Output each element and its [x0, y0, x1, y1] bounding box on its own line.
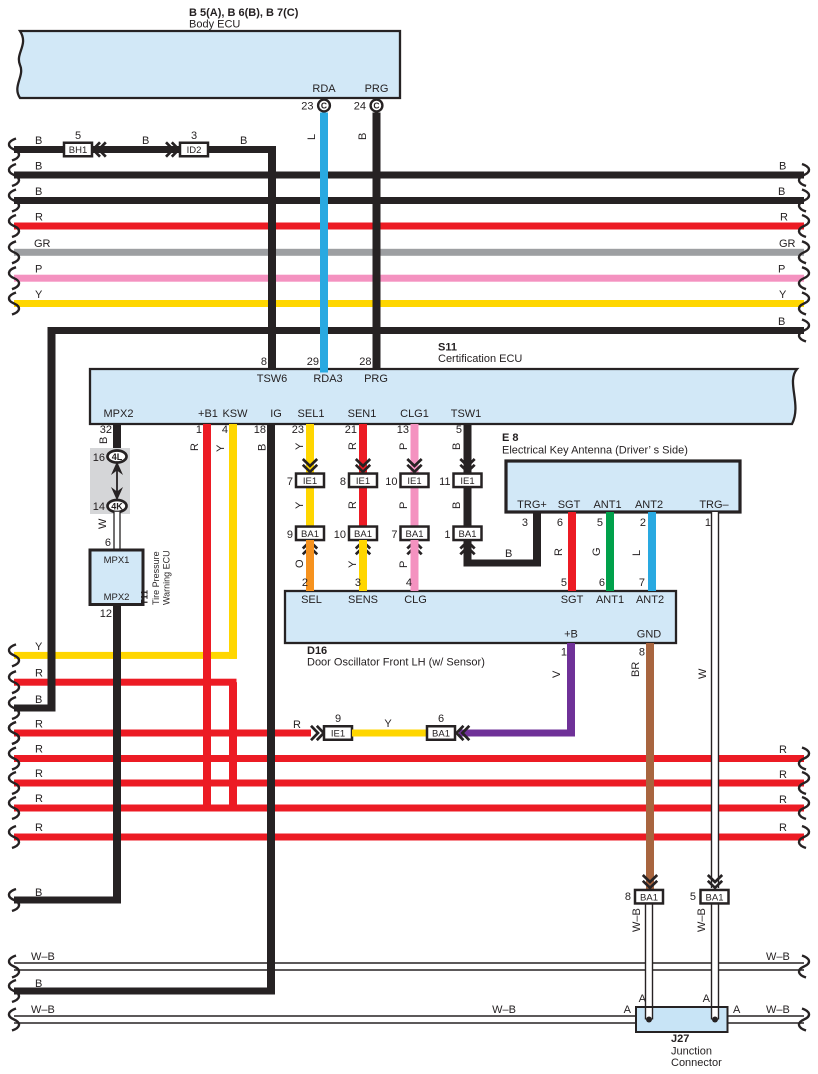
chevron after BA1-6 — [457, 726, 464, 740]
svg-text:ID2: ID2 — [187, 145, 202, 156]
svg-text:W–B: W–B — [31, 1004, 55, 1016]
wire R branch down — [229, 682, 237, 811]
wire B row1 down to TSW6 — [268, 146, 276, 369]
svg-text:Y: Y — [779, 289, 787, 301]
torn edge B 900 — [9, 889, 19, 911]
svg-text:18: 18 — [254, 424, 266, 436]
wire Y SEL1 upper — [306, 424, 314, 473]
svg-text:Tire Pressure: Tire Pressure — [151, 551, 161, 605]
svg-text:MPX2: MPX2 — [104, 592, 130, 603]
wire B row8 vertical — [48, 327, 56, 712]
svg-text:W–B: W–B — [766, 1004, 790, 1016]
svg-text:16: 16 — [93, 452, 105, 464]
torn edges R rows right — [799, 748, 809, 770]
svg-text:Body ECU: Body ECU — [189, 19, 240, 31]
svg-text:B: B — [240, 135, 247, 147]
svg-text:1: 1 — [561, 647, 567, 659]
wire B MPX2-12 left arm — [14, 897, 121, 904]
torn edges W-B bottom — [9, 1009, 19, 1031]
svg-text:L: L — [631, 550, 643, 556]
svg-text:Y: Y — [215, 444, 227, 452]
svg-text:29: 29 — [307, 356, 319, 368]
svg-text:P: P — [398, 502, 410, 509]
svg-text:B: B — [35, 161, 42, 173]
svg-text:ANT2: ANT2 — [636, 594, 664, 606]
wire P CLG1 mid seg — [411, 487, 419, 527]
svg-text:IE1: IE1 — [303, 476, 317, 487]
svg-text:8: 8 — [340, 476, 346, 488]
svg-text:E 8: E 8 — [502, 432, 519, 444]
svg-text:+B: +B — [564, 629, 578, 641]
svg-text:GR: GR — [779, 238, 796, 250]
chevron BA1 col1 — [303, 542, 317, 549]
svg-text:24: 24 — [354, 101, 366, 113]
wire BR GND down — [646, 643, 654, 889]
wire Y KSW down — [229, 424, 237, 659]
connector shade 4L-4K — [90, 448, 130, 514]
svg-text:CLG: CLG — [404, 594, 427, 606]
svg-text:A: A — [703, 993, 711, 1005]
wire W-B BA1-8 down — [646, 904, 653, 1020]
svg-text:SEL: SEL — [301, 594, 322, 606]
svg-text:R: R — [553, 548, 565, 556]
chevron IE1 col1 — [303, 459, 317, 466]
svg-text:3: 3 — [355, 577, 361, 589]
svg-text:MPX1: MPX1 — [104, 555, 130, 566]
svg-text:B: B — [142, 135, 149, 147]
svg-text:4L: 4L — [112, 452, 123, 462]
chevron IE1 col2 — [356, 459, 370, 466]
svg-text:PRG: PRG — [364, 373, 388, 385]
svg-text:Junction: Junction — [671, 1046, 712, 1058]
bus wire B row2 — [14, 172, 804, 179]
svg-text:21: 21 — [345, 424, 357, 436]
svg-text:IE1: IE1 — [460, 476, 474, 487]
svg-text:Y: Y — [347, 560, 359, 568]
wire R SGT — [568, 512, 576, 591]
torn edges right top — [799, 164, 809, 186]
svg-text:TRG+: TRG+ — [517, 499, 547, 511]
svg-text:23: 23 — [292, 424, 304, 436]
chevron into BA1-8 — [643, 875, 657, 882]
E8 block — [506, 461, 740, 512]
svg-text:B: B — [779, 161, 786, 173]
svg-text:TSW6: TSW6 — [257, 373, 288, 385]
svg-text:SEN1: SEN1 — [348, 408, 377, 420]
svg-text:+B1: +B1 — [198, 408, 218, 420]
svg-text:A: A — [639, 993, 647, 1005]
svg-text:R: R — [779, 822, 787, 834]
wire R +B1 down — [203, 424, 211, 812]
bus wire GR row5 — [14, 249, 804, 256]
wire G ANT1 — [606, 512, 614, 591]
wire Y between — [352, 730, 427, 737]
svg-text:Y: Y — [384, 718, 392, 730]
svg-text:5: 5 — [597, 517, 603, 529]
junction dot 1 — [646, 1017, 652, 1023]
torn edge R 733 — [9, 722, 19, 744]
svg-text:10: 10 — [385, 476, 397, 488]
svg-text:R: R — [779, 744, 787, 756]
svg-text:B: B — [35, 694, 42, 706]
svg-text:R: R — [35, 822, 43, 834]
svg-text:12: 12 — [100, 608, 112, 620]
wire Y SENS — [359, 540, 367, 591]
wire R SEN1 upper — [359, 424, 367, 473]
svg-text:R: R — [35, 768, 43, 780]
svg-text:B: B — [35, 978, 42, 990]
chevron BA1 col2 — [356, 542, 370, 549]
svg-text:SGT: SGT — [561, 594, 584, 606]
svg-text:BA1: BA1 — [706, 892, 724, 903]
wire W-B BA1-5 down — [712, 904, 719, 1020]
wire B MPX2 pin12 down — [113, 605, 121, 904]
svg-text:R: R — [779, 794, 787, 806]
chevron BA1 col4 — [460, 542, 474, 549]
svg-text:PRG: PRG — [365, 83, 389, 95]
chevron BA1 col3 — [407, 542, 421, 549]
bus wire W-B row — [14, 963, 804, 970]
svg-text:9: 9 — [287, 529, 293, 541]
D16 Door Oscillator block — [285, 591, 676, 643]
svg-text:B: B — [778, 186, 785, 198]
svg-text:14: 14 — [93, 501, 105, 513]
svg-text:R: R — [35, 793, 43, 805]
svg-text:V: V — [551, 670, 563, 678]
svg-text:A: A — [733, 1004, 741, 1016]
svg-text:28: 28 — [359, 356, 371, 368]
svg-text:B: B — [357, 133, 369, 140]
svg-text:1: 1 — [196, 424, 202, 436]
svg-text:R: R — [779, 769, 787, 781]
svg-text:7: 7 — [639, 577, 645, 589]
junction dot 2 — [712, 1017, 718, 1023]
svg-text:W: W — [97, 518, 109, 529]
wire B TSW1 mid seg — [464, 487, 472, 527]
svg-text:B: B — [257, 444, 269, 451]
svg-text:2: 2 — [640, 517, 646, 529]
wire W-B into J27 dot2 — [712, 1008, 719, 1020]
svg-text:MPX2: MPX2 — [104, 408, 134, 420]
wire R SEN1 mid seg — [359, 487, 367, 527]
T11 Tire Pressure Warning ECU block — [90, 550, 143, 605]
svg-text:W–B: W–B — [766, 951, 790, 963]
svg-text:Warning ECU: Warning ECU — [162, 550, 172, 605]
svg-text:SGT: SGT — [558, 499, 581, 511]
Body ECU block B5/B6/B7 — [17, 31, 400, 98]
svg-text:R: R — [35, 668, 43, 680]
svg-text:5: 5 — [561, 577, 567, 589]
svg-text:R: R — [35, 212, 43, 224]
svg-text:11: 11 — [439, 476, 450, 488]
svg-text:S11: S11 — [438, 342, 457, 354]
svg-text:8: 8 — [639, 647, 645, 659]
torn edge R 682 — [9, 671, 19, 693]
svg-text:IG: IG — [270, 408, 282, 420]
wire V +B to BA1 — [567, 643, 575, 737]
torn edges W-B row — [9, 956, 19, 978]
wire R left arm — [14, 679, 237, 686]
svg-text:R: R — [35, 744, 43, 756]
svg-text:7: 7 — [287, 476, 293, 488]
svg-text:C: C — [373, 101, 379, 111]
svg-text:R: R — [347, 501, 359, 509]
svg-text:32: 32 — [100, 424, 112, 436]
svg-text:G: G — [591, 547, 603, 556]
torn edge Y 655 — [9, 644, 19, 666]
wire B TSW1 — [464, 424, 472, 473]
svg-text:J27: J27 — [671, 1033, 689, 1045]
chevron IE1 col4 — [460, 459, 474, 466]
wire B PRG down — [373, 113, 381, 370]
svg-text:BA1: BA1 — [432, 729, 450, 740]
svg-text:B: B — [35, 887, 42, 899]
svg-text:6: 6 — [599, 577, 605, 589]
svg-text:C: C — [321, 101, 327, 111]
bus wire B row3 — [14, 197, 804, 204]
svg-text:D16: D16 — [307, 645, 327, 657]
svg-text:6: 6 — [438, 713, 444, 725]
svg-text:10: 10 — [334, 529, 346, 541]
svg-text:2: 2 — [302, 577, 308, 589]
wire Y SEL1 mid seg — [306, 487, 314, 527]
svg-text:23: 23 — [301, 101, 313, 113]
wire R row to IE1-9 — [14, 730, 311, 737]
svg-text:BA1: BA1 — [406, 529, 424, 540]
svg-text:W: W — [697, 668, 709, 679]
svg-text:KSW: KSW — [222, 408, 248, 420]
svg-text:9: 9 — [335, 713, 341, 725]
svg-text:Electrical Key Antenna (Driver: Electrical Key Antenna (Driver’ s Side) — [502, 445, 688, 457]
svg-text:B: B — [778, 316, 785, 328]
bus wire Y row7 — [14, 300, 804, 307]
svg-text:TSW1: TSW1 — [451, 408, 482, 420]
svg-text:4K: 4K — [111, 502, 123, 512]
wire W TRG- down — [712, 512, 719, 888]
bus wire B row1 — [14, 146, 276, 153]
J27 Junction Connector block — [636, 1007, 728, 1032]
svg-text:B 5(A), B 6(B), B 7(C): B 5(A), B 6(B), B 7(C) — [189, 7, 299, 19]
svg-text:RDA: RDA — [312, 83, 336, 95]
svg-text:6: 6 — [105, 537, 111, 549]
svg-text:ANT1: ANT1 — [596, 594, 624, 606]
svg-text:W–B: W–B — [631, 908, 643, 932]
svg-text:SEL1: SEL1 — [298, 408, 325, 420]
svg-text:B: B — [35, 135, 42, 147]
chevron into IE1-9 — [311, 726, 318, 740]
wire O SEL — [306, 540, 314, 591]
svg-text:BA1: BA1 — [354, 529, 372, 540]
svg-text:1: 1 — [705, 517, 711, 529]
wire B IG down — [267, 424, 275, 995]
svg-text:O: O — [294, 559, 306, 568]
svg-text:5: 5 — [75, 130, 81, 142]
svg-text:W–B: W–B — [31, 951, 55, 963]
pin 24 circle C — [371, 100, 383, 112]
wire P CLG1 upper — [411, 424, 419, 473]
svg-text:3: 3 — [191, 130, 197, 142]
svg-text:B: B — [505, 548, 512, 560]
svg-text:Y: Y — [294, 501, 306, 509]
pin 23 circle C — [318, 100, 330, 112]
svg-text:3: 3 — [522, 517, 528, 529]
svg-text:ANT1: ANT1 — [593, 499, 621, 511]
svg-text:B: B — [451, 443, 463, 450]
torn edges left top — [9, 139, 19, 161]
svg-text:R: R — [347, 442, 359, 450]
double arrow 4L-4K — [116, 466, 118, 496]
wire Y KSW left arm — [14, 652, 237, 659]
svg-text:1: 1 — [444, 529, 450, 541]
svg-text:5: 5 — [456, 424, 462, 436]
svg-text:TRG–: TRG– — [699, 499, 729, 511]
wire B IG left arm — [14, 988, 275, 995]
torn edges R rows left — [9, 722, 19, 744]
svg-text:7: 7 — [391, 529, 397, 541]
svg-text:IE1: IE1 — [407, 476, 421, 487]
svg-text:IE1: IE1 — [356, 476, 370, 487]
svg-text:Connector: Connector — [671, 1057, 722, 1069]
svg-text:4: 4 — [406, 577, 412, 589]
svg-text:ANT2: ANT2 — [635, 499, 663, 511]
svg-text:T11: T11 — [140, 590, 150, 605]
bus wire R row4 — [14, 223, 804, 230]
svg-text:B: B — [98, 437, 110, 444]
svg-text:SENS: SENS — [348, 594, 378, 606]
svg-text:BA1: BA1 — [459, 529, 477, 540]
svg-text:W–B: W–B — [696, 908, 708, 932]
svg-text:GR: GR — [34, 238, 51, 250]
bus wire B row8 — [48, 327, 804, 334]
wire B BA1 to TRG+ — [464, 540, 472, 567]
svg-text:L: L — [306, 134, 318, 140]
bus wire W-B bottom row — [14, 1016, 804, 1023]
bus wire P row6 — [14, 275, 804, 282]
svg-text:Y: Y — [35, 289, 43, 301]
wire W 4K to MPX1 — [114, 512, 120, 550]
svg-text:P: P — [398, 443, 410, 450]
wire B MPX2 pin32 down — [113, 424, 121, 449]
svg-text:RDA3: RDA3 — [313, 373, 342, 385]
svg-text:B: B — [35, 186, 42, 198]
chevron into BA1-5 — [708, 875, 722, 882]
torn edge left row8 tail — [9, 697, 19, 719]
svg-text:Y: Y — [294, 442, 306, 450]
wire L ANT2 — [648, 512, 656, 591]
svg-text:W–B: W–B — [492, 1004, 516, 1016]
svg-text:Door Oscillator Front LH (w/ S: Door Oscillator Front LH (w/ Sensor) — [307, 657, 485, 669]
wire L RDA to RDA3 — [320, 113, 328, 373]
S11 Certification ECU block — [90, 369, 797, 424]
svg-text:BR: BR — [630, 662, 642, 677]
svg-text:P: P — [35, 264, 42, 276]
bus wire R row10 — [14, 780, 804, 787]
bus wire R row11 — [14, 805, 804, 812]
wire W-B into J27 dot1 — [646, 1008, 653, 1020]
svg-text:A: A — [624, 1004, 632, 1016]
svg-text:6: 6 — [557, 517, 563, 529]
torn edge B 991 — [9, 980, 19, 1002]
svg-text:5: 5 — [690, 891, 696, 903]
svg-text:B: B — [451, 502, 463, 509]
svg-text:BA1: BA1 — [301, 529, 319, 540]
svg-text:8: 8 — [261, 356, 267, 368]
svg-text:CLG1: CLG1 — [400, 408, 429, 420]
bus wire R row12 — [14, 834, 804, 841]
svg-text:P: P — [778, 264, 785, 276]
svg-text:Certification ECU: Certification ECU — [438, 353, 522, 365]
chevron right before ID2 — [166, 142, 173, 156]
svg-text:8: 8 — [625, 891, 631, 903]
svg-text:BA1: BA1 — [640, 892, 658, 903]
svg-text:GND: GND — [637, 629, 662, 641]
wire P CLG — [411, 540, 419, 591]
chevron IE1 col3 — [407, 459, 421, 466]
svg-text:BH1: BH1 — [69, 145, 87, 156]
svg-text:4: 4 — [222, 424, 228, 436]
svg-text:R: R — [780, 212, 788, 224]
svg-text:IE1: IE1 — [331, 729, 345, 740]
chevron left after BH1 — [93, 142, 100, 156]
svg-text:P: P — [398, 561, 410, 568]
svg-text:Y: Y — [35, 641, 43, 653]
bus wire R row9 — [14, 755, 804, 762]
svg-text:R: R — [189, 443, 201, 451]
svg-text:R: R — [293, 719, 301, 731]
svg-text:R: R — [35, 719, 43, 731]
svg-text:13: 13 — [397, 424, 409, 436]
